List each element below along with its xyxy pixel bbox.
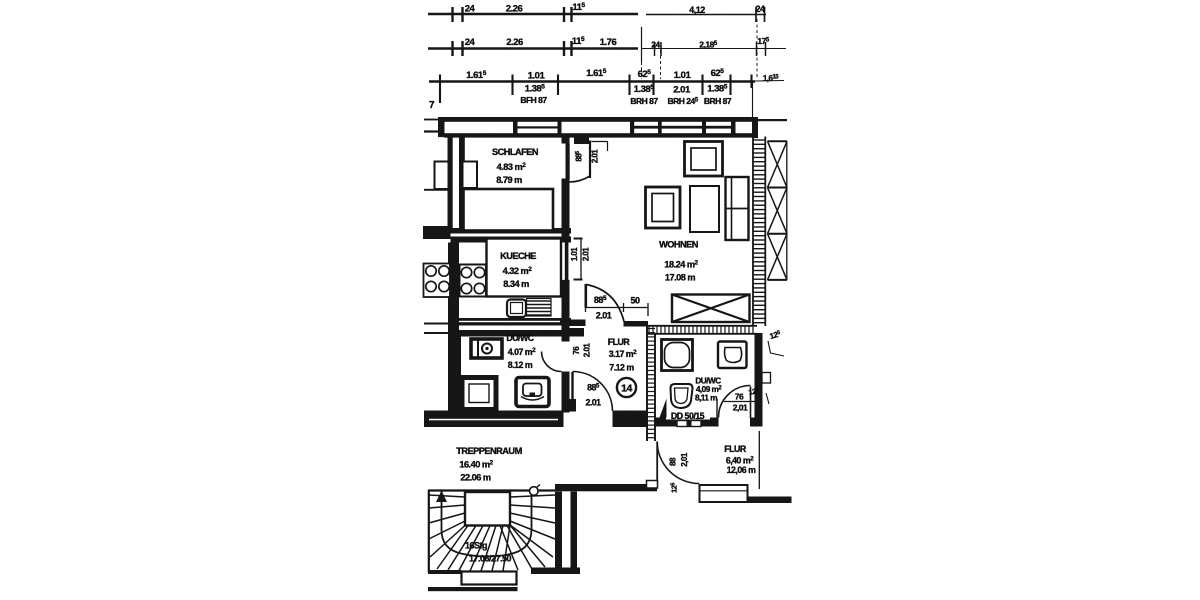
- neighbour nightstand: [435, 162, 449, 190]
- sofa: [726, 177, 749, 240]
- bottom wall right part: [613, 411, 649, 428]
- duwc-right bottom wall left: [655, 418, 719, 427]
- BOTTOM FLUR: [555, 431, 792, 503]
- duwc-right top hatched wall: [647, 325, 757, 327]
- stair left wall line: [428, 490, 430, 572]
- top line over balcony: [758, 119, 787, 121]
- dim row2 line left: [428, 47, 638, 49]
- DU/WC RIGHT: [647, 326, 784, 441]
- dim row3 line: [429, 80, 755, 82]
- stair top line: [428, 489, 555, 491]
- TREPPENRAUM: [428, 446, 580, 591]
- entry door leaf: [571, 372, 573, 411]
- bathtub: [471, 339, 502, 358]
- crossed table: [672, 295, 750, 323]
- duwc-left left wall: [448, 331, 461, 411]
- kueche stove box: [460, 265, 487, 297]
- schlafen/wohnen wall upper: [562, 137, 570, 144]
- window sill mid lines: [518, 126, 558, 128]
- kueche left wall: [448, 243, 459, 332]
- kueche bottom wall: [448, 318, 571, 326]
- armchair square: [646, 187, 681, 228]
- DIMENSION ROW 1: [428, 2, 766, 22]
- bottom flur right boundary thin line: [758, 431, 760, 489]
- FLUR MIDDLE: [562, 326, 638, 413]
- KUECHE: [424, 238, 591, 333]
- ENTRY DOOR AND BOTTOM WALL: [424, 372, 648, 428]
- schlafen door hinge: [574, 134, 589, 145]
- duwc-right left hatched wall: [646, 326, 648, 441]
- dim row2 extension lines: [641, 27, 643, 62]
- SCHLAFEN ROOM: [423, 134, 608, 326]
- tv cabinet: [685, 142, 723, 177]
- kueche pass-through jambs: [562, 240, 570, 242]
- dim row2 line right thin: [641, 48, 786, 50]
- flur top wall right piece: [624, 321, 649, 327]
- side table tall rect: [690, 186, 719, 232]
- wohnen-flur door dim line: [586, 307, 649, 309]
- stair up arrow: [436, 491, 447, 503]
- stair treads: [429, 495, 555, 571]
- duwc-right door leaf: [750, 387, 752, 419]
- stair landing: [462, 572, 517, 585]
- DIMENSION ROW 2: [428, 19, 786, 79]
- flur-wohnen wall segment: [562, 326, 570, 342]
- stair marker circle: [530, 487, 539, 496]
- dim row1 line left: [428, 13, 638, 15]
- row3 to wall connector: [752, 82, 754, 117]
- corridor recess box: [700, 485, 748, 502]
- BALCONY: [753, 137, 787, 327]
- duwc-left door arc: [542, 352, 562, 372]
- corner wedge: [660, 399, 667, 418]
- schlafen left wall: [448, 135, 453, 230]
- entry door arc: [573, 372, 613, 412]
- duwc-left top wall: [448, 330, 572, 337]
- corridor bottom wall left of door: [555, 484, 657, 491]
- dim row3 ticks: [440, 75, 752, 104]
- dim row1 ticks: [453, 7, 572, 22]
- wc: [516, 378, 549, 407]
- apartment number circle 14: [617, 378, 636, 397]
- DU/WC LEFT: [448, 328, 584, 411]
- corridor bottom wall right: [748, 497, 792, 504]
- kueche drainer: [527, 299, 552, 317]
- bottom flur door leaf: [656, 442, 658, 484]
- TOP OUTER WALL: [424, 117, 787, 138]
- scan speckle noise: [408, 0, 793, 598]
- top wall pillars: [438, 118, 445, 138]
- neighbour stove box: [424, 264, 451, 298]
- balcony wall ladder hatch band: [752, 137, 754, 327]
- duwc-left door hinge: [570, 328, 585, 337]
- kueche pass-through dim bracket: [580, 238, 582, 280]
- dim row1 line right: [646, 14, 766, 16]
- kueche stove burners: [461, 267, 484, 293]
- stair walk line: [442, 491, 532, 557]
- top wall neighbour stub lines: [424, 119, 440, 121]
- treppenraum right bottom band: [531, 568, 580, 575]
- duwc-right bottom wall right: [750, 418, 763, 427]
- stair outer bottom line: [428, 587, 518, 591]
- dim row2 ticks: [453, 41, 572, 56]
- duwc-right door arc: [719, 386, 751, 418]
- shower: [462, 378, 496, 410]
- bed: [464, 189, 554, 231]
- DIMENSION ROW 3: [429, 68, 784, 117]
- neighbour lines left of kueche bottom wall: [424, 323, 448, 325]
- treppenraum right wall inner: [555, 492, 562, 572]
- treppenraum right wall outer: [571, 492, 578, 569]
- wohnen-flur door arc: [586, 285, 624, 322]
- right wall niche: [762, 373, 771, 384]
- dd box: [677, 421, 701, 427]
- top wall outer face: [438, 117, 758, 122]
- balcony railing X panels: [768, 141, 788, 280]
- kueche counter: [487, 239, 562, 297]
- schlafen/wohnen wall mid: [562, 179, 570, 241]
- bottom wall left part: [424, 411, 564, 428]
- schlafen door dim bracket: [592, 141, 609, 143]
- flur top wall left jamb: [570, 320, 586, 327]
- duwc-right door dim: [724, 401, 758, 403]
- duwc-right right wall: [755, 333, 763, 420]
- schlafen/wohnen wall lower: [562, 281, 570, 326]
- WOHNEN: [570, 142, 750, 327]
- schlafen door leaf: [589, 141, 591, 179]
- nightstand: [463, 162, 478, 189]
- junction white box: [647, 481, 658, 489]
- schlafen/kueche divider wall: [423, 226, 451, 239]
- schlafen door arc: [566, 176, 591, 182]
- top wall inner face: [444, 133, 758, 137]
- bottom flur door arc: [657, 442, 699, 484]
- shower right: [662, 340, 693, 371]
- stair bottom-left wall: [428, 570, 462, 574]
- flur-duwc wall segment lower: [562, 372, 570, 413]
- kueche sink: [507, 300, 526, 318]
- entry door hinge blob: [564, 399, 577, 412]
- wohnen-flur door leaf: [584, 284, 587, 308]
- wc right: [718, 342, 747, 369]
- neighbour wall line: [424, 189, 450, 191]
- stair well: [465, 492, 510, 526]
- washbasin right: [671, 384, 693, 408]
